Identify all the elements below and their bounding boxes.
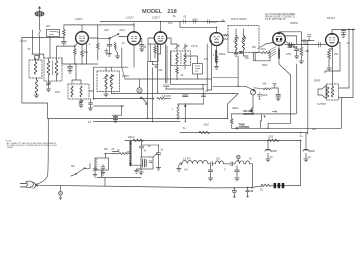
wire bus 99 right already — [122, 67, 125, 79]
svg-text:.1: .1 — [88, 44, 91, 46]
ground C5 — [68, 71, 72, 74]
resistor R15 — [328, 49, 331, 61]
resistor R17 — [268, 137, 279, 142]
chassis ground G1 — [59, 186, 63, 200]
ground C19 — [93, 173, 97, 178]
ballast R23 box — [95, 158, 109, 170]
transformer IF2 box — [171, 51, 191, 66]
wire choke bottom — [131, 165, 141, 169]
ground R15 — [327, 65, 331, 71]
capacitor C27 — [112, 106, 122, 120]
capacitor C36 dark — [240, 52, 243, 54]
ground R5 — [115, 53, 119, 59]
wire grid to tube — [57, 43, 78, 58]
inductor L8 choke — [177, 106, 179, 120]
svg-text:2ND DET: 2ND DET — [288, 47, 298, 49]
capacitor C34 — [149, 161, 152, 163]
svg-text:40: 40 — [148, 146, 151, 148]
tube V6 50L6GT — [326, 30, 339, 50]
wire bus to V4 — [180, 22, 217, 28]
ground C7 — [107, 50, 111, 56]
trimmer arrows IF2 — [175, 46, 188, 50]
wire bus 114 — [231, 113, 295, 115]
wire bottom bus right — [271, 185, 301, 187]
node S1 — [109, 38, 111, 40]
terminal ring chain left — [180, 163, 182, 165]
svg-text:.05: .05 — [143, 47, 147, 49]
resistor R21 — [133, 139, 143, 141]
ground C16 — [235, 175, 239, 181]
resistor R16 — [199, 131, 210, 133]
svg-text:.01: .01 — [205, 91, 209, 93]
wire mid main bus — [111, 93, 238, 95]
ground R14 — [299, 58, 303, 64]
svg-text:.005: .005 — [305, 51, 310, 53]
wire volume line — [213, 85, 246, 87]
svg-text:30: 30 — [117, 150, 120, 152]
wire speaker leads — [333, 48, 354, 98]
transformer L2 wave trap — [29, 58, 42, 78]
ground T2 — [79, 105, 83, 108]
svg-text:1200: 1200 — [268, 137, 274, 139]
resistor R5 diag — [114, 43, 118, 54]
capacitor C30 bus — [208, 20, 210, 23]
potentiometer VOL — [250, 90, 255, 108]
vertical long x296 — [296, 64, 298, 114]
svg-text:10: 10 — [122, 43, 125, 45]
capacitor C15 — [208, 166, 213, 175]
wire V1 plate — [87, 38, 98, 64]
svg-text:VOLUME: VOLUME — [243, 111, 253, 113]
switch S2 vol — [246, 84, 281, 101]
wire IF1 top bus — [94, 66, 128, 68]
svg-text:20MF: 20MF — [271, 151, 277, 153]
wire top bus main — [101, 21, 225, 23]
svg-text:.0001: .0001 — [192, 20, 198, 22]
vertical left long — [93, 67, 95, 99]
capacitor C9 — [140, 45, 145, 50]
svg-text:6.3: 6.3 — [88, 122, 92, 124]
padder C8 — [105, 49, 109, 56]
line-cord box B1 — [47, 30, 60, 37]
wire V6 cath — [329, 49, 332, 65]
plug P3 — [21, 181, 38, 188]
wire AC line — [36, 185, 263, 188]
resistor R20 — [119, 153, 131, 155]
wire cord — [36, 119, 49, 185]
svg-text:AVC: AVC — [168, 22, 173, 25]
node R7 — [176, 78, 178, 80]
vertical 211 — [211, 40, 213, 90]
node R22 — [153, 98, 155, 100]
svg-text:2MEG: 2MEG — [219, 54, 226, 56]
tube V2 12SA7 converter — [128, 23, 141, 50]
wire det — [244, 52, 271, 61]
ground C20 — [101, 171, 105, 176]
vertical 170.5 — [170, 51, 172, 84]
hatch marks V5 — [269, 47, 277, 58]
transformer L1 antenna coil — [44, 58, 62, 81]
ground C13 — [295, 53, 299, 59]
svg-text:12SA7: 12SA7 — [126, 16, 134, 20]
capacitor C21 — [139, 141, 143, 158]
wire long 121 — [94, 121, 180, 123]
svg-text:455KC: 455KC — [122, 76, 129, 78]
wire V3 plate — [167, 38, 171, 44]
transformer IF3 box — [228, 26, 259, 53]
node blob — [184, 105, 186, 107]
svg-text:218: 218 — [167, 9, 176, 15]
tube V5 12SQ7GT — [273, 32, 302, 49]
wire cath bus — [62, 58, 98, 64]
wire grid line V5-V6 — [285, 44, 326, 46]
switch S1 — [109, 33, 127, 38]
wire 211 bottom — [207, 89, 211, 91]
oscillator coil T2 — [68, 84, 89, 99]
svg-text:470K: 470K — [286, 54, 292, 56]
wire grid bus V5 — [213, 77, 238, 79]
tube V3 12SK7 IF — [154, 22, 166, 48]
vertical long x308 — [307, 40, 309, 134]
wire V5 plate — [285, 42, 288, 44]
wire diag mid — [228, 94, 239, 119]
capacitor C19 — [93, 167, 97, 173]
capacitor C29 bus — [194, 20, 196, 23]
wire common 177 — [97, 170, 141, 186]
switch S5 wafer — [140, 97, 147, 105]
node 238 — [237, 86, 239, 88]
vertical 238 — [237, 56, 239, 86]
wire V2 plate right — [141, 38, 142, 44]
wire grid line V2 — [98, 37, 109, 39]
wire tone loop — [232, 98, 342, 129]
resistor R14 — [300, 47, 303, 58]
wire V3 grid — [148, 38, 154, 44]
wire V3 misc — [158, 44, 161, 94]
assorted tiny labels — [46, 16, 304, 152]
coil L5 hatched — [216, 50, 218, 62]
coil L4 dark — [215, 51, 217, 63]
svg-text:TO B- WITH SET IN: TO B- WITH SET IN — [265, 19, 286, 21]
capacitor C11 — [257, 93, 261, 99]
ground box A — [134, 169, 141, 173]
svg-text:L: L — [172, 109, 174, 111]
svg-text:B+: B+ — [173, 16, 177, 18]
speaker SP1 — [318, 84, 339, 100]
wire long 133 — [180, 132, 308, 134]
wire V5 grid — [258, 43, 273, 49]
capacitor C17 — [265, 141, 277, 156]
svg-text:ANT: ANT — [46, 25, 51, 28]
vertical right bus1 — [348, 30, 350, 89]
capacitor C1 — [27, 30, 44, 60]
resistor R10 det — [261, 52, 270, 54]
svg-text:FIELD: FIELD — [128, 137, 135, 139]
node grid V1 — [74, 45, 76, 47]
scattered tiny labels — [20, 21, 350, 160]
svg-text:33: 33 — [260, 190, 263, 192]
vertical right bus2 — [352, 30, 354, 98]
resistor R7 — [176, 68, 179, 80]
box diode filter — [193, 64, 203, 75]
wire chain right — [252, 164, 254, 188]
capacitor C31 — [319, 42, 321, 47]
wire top bus left — [64, 24, 134, 26]
resistor R11 — [251, 108, 253, 114]
trimmer C6 — [79, 99, 83, 105]
ground L3 — [34, 95, 38, 98]
svg-text:2.2: 2.2 — [57, 32, 61, 34]
node ballast top — [105, 153, 107, 155]
resistor R3 cathode — [81, 48, 89, 64]
switch S4 power — [71, 166, 85, 174]
svg-text:SPKR: SPKR — [314, 81, 321, 83]
svg-text:2ND IF TRANS: 2ND IF TRANS — [231, 18, 247, 21]
transformer IF1 box — [97, 71, 120, 92]
svg-text:.0002: .0002 — [203, 125, 209, 127]
svg-text:OUTPUT: OUTPUT — [317, 104, 327, 106]
wire IF3 leads — [236, 29, 244, 56]
wire AVC left vertical — [22, 37, 48, 118]
svg-text:SW: SW — [104, 149, 109, 151]
capacitor C22 — [156, 145, 160, 168]
svg-text:1ST IF: 1ST IF — [191, 46, 198, 48]
svg-text:1: 1 — [213, 55, 215, 57]
resistor R22 — [157, 97, 171, 99]
svg-text:150: 150 — [334, 54, 339, 56]
svg-text:35Z5GT: 35Z5GT — [290, 23, 299, 25]
capacitor C12 — [290, 42, 292, 47]
resistor R8 — [215, 56, 218, 64]
pilot lamp P2 — [237, 155, 241, 161]
svg-text:30: 30 — [161, 150, 164, 152]
trimmer C2 — [47, 81, 51, 87]
wire box2 leads — [185, 56, 203, 89]
node C11 — [259, 98, 260, 99]
wire box lead — [49, 37, 51, 59]
ground C18 — [304, 156, 308, 162]
capacitor C14 — [341, 31, 345, 35]
capacitor C32 — [183, 95, 189, 97]
coil L3 — [35, 78, 37, 95]
svg-text:2A3: 2A3 — [312, 128, 317, 131]
svg-text:20: 20 — [270, 157, 273, 159]
svg-text:C: C — [224, 170, 226, 172]
svg-text:.05: .05 — [183, 17, 187, 19]
wire switch leads — [71, 164, 90, 177]
svg-text:OHMS: OHMS — [7, 147, 14, 149]
capacitor C33 — [112, 152, 119, 154]
svg-text:3.5 470: 3.5 470 — [183, 159, 191, 161]
resistor R2 AVC — [74, 46, 77, 64]
wire seg 104 — [178, 103, 204, 105]
wire ballast top — [105, 154, 112, 158]
svg-text:.05: .05 — [27, 49, 31, 51]
capacitor C13 — [294, 47, 299, 53]
ground chain — [177, 169, 181, 172]
wire grid horizontal — [22, 36, 64, 38]
svg-text:LOOP: LOOP — [20, 41, 27, 43]
box R6 screen — [148, 44, 158, 62]
svg-text:.0001: .0001 — [119, 30, 125, 32]
svg-text:250: 250 — [252, 47, 257, 49]
wire osc leads — [72, 64, 94, 91]
resistor R12 vertical — [231, 114, 233, 128]
svg-text:1MEG: 1MEG — [232, 108, 239, 110]
ground IF1 — [104, 94, 108, 97]
svg-text:150: 150 — [167, 96, 172, 98]
vertical 207 — [206, 44, 208, 90]
ground box B — [139, 169, 143, 175]
svg-text:30: 30 — [308, 157, 311, 159]
ground L1 — [46, 87, 50, 92]
svg-text:A B: A B — [184, 169, 188, 172]
svg-text:CONTROL: CONTROL — [239, 127, 251, 129]
resistor R13 dark bar — [278, 49, 280, 58]
wire bus 89 — [166, 88, 204, 90]
resistor chain R18 ballast divider — [182, 159, 253, 172]
capacitor C24 line bypass — [232, 187, 236, 198]
tube V1 12SK7 RF — [76, 25, 89, 48]
wire V5 down — [279, 58, 291, 75]
svg-text:.002: .002 — [158, 70, 163, 72]
svg-text:50L6GT: 50L6GT — [327, 18, 336, 20]
wire IF2 leads — [171, 44, 185, 69]
title MODEL 218 — [142, 9, 177, 15]
capacitor C7 — [107, 39, 112, 51]
labels mid right — [286, 51, 310, 56]
svg-text:OSC: OSC — [104, 30, 109, 32]
svg-text:250: 250 — [245, 58, 250, 60]
vertical bus mid1 — [147, 62, 149, 119]
svg-text:PAD: PAD — [55, 91, 60, 94]
capacitor C25 line bypass — [246, 187, 254, 198]
wire chain left — [178, 165, 180, 169]
wire choke top — [130, 141, 132, 145]
wire long 118 — [48, 118, 228, 120]
ground C22 — [156, 168, 160, 171]
capacitor C16 — [235, 166, 240, 175]
svg-text:SW: SW — [71, 166, 76, 168]
wire mid second — [94, 105, 124, 107]
inductor L7 field coil — [130, 142, 132, 166]
ground C15 — [208, 175, 212, 181]
ground arrow A — [264, 116, 266, 119]
ground C17 — [266, 156, 270, 162]
capacitor C10 — [163, 85, 169, 89]
capacitor C35 — [303, 40, 306, 41]
switch S3 tone — [236, 128, 238, 130]
resistor R19 — [260, 184, 271, 191]
svg-text:.05: .05 — [250, 191, 254, 193]
wire V6 loop — [325, 43, 340, 74]
ground C26 — [88, 108, 92, 111]
wire bus 84 — [171, 83, 208, 85]
svg-text:.05: .05 — [180, 75, 184, 77]
ground box — [153, 65, 159, 68]
svg-text:IN OHMS UNLESS OTHERWISE SPECI: IN OHMS UNLESS OTHERWISE SPECIFIED K=100… — [7, 145, 58, 147]
svg-text:12SK7: 12SK7 — [152, 16, 160, 20]
wire box top link — [142, 145, 159, 157]
capacitor C20 — [101, 165, 105, 171]
wire left mid — [94, 98, 154, 100]
svg-text:40: 40 — [144, 151, 147, 153]
tube V4 12SQ7 — [210, 27, 223, 50]
pilot lamp P1 — [137, 79, 142, 94]
svg-text:99: 99 — [249, 159, 252, 161]
wire V3 cath verticals — [161, 44, 168, 83]
wire V4 plate — [223, 34, 229, 39]
svg-text:.0001: .0001 — [260, 49, 266, 51]
ground IF3 — [234, 52, 238, 56]
capacitor C18 — [303, 133, 315, 156]
svg-text:500K: 500K — [262, 65, 268, 67]
ground V4 — [214, 64, 218, 70]
node grid junction — [32, 37, 34, 39]
rectifier box B2 — [141, 157, 153, 169]
diode load R9 — [254, 52, 271, 61]
svg-text:30MF: 30MF — [309, 151, 315, 153]
wire long 140 — [125, 140, 301, 142]
ground C14 — [341, 35, 345, 38]
note text — [6, 141, 58, 150]
capacitor C5 — [68, 64, 73, 71]
wire V2 cathode — [133, 50, 135, 67]
wire antenna lead — [39, 16, 40, 58]
vertical det down — [201, 88, 205, 104]
svg-text:B+: B+ — [300, 136, 304, 138]
wire V6 top cap — [332, 30, 355, 31]
vertical x121.8 — [121, 48, 123, 67]
wire bus 79 — [125, 78, 212, 80]
capacitor C4a — [62, 37, 67, 46]
wire box leads — [152, 62, 154, 65]
wire IF1 leads — [106, 67, 111, 94]
capacitor C26 — [88, 99, 92, 108]
svg-text:.05: .05 — [111, 149, 115, 151]
resistor R4 plate — [97, 25, 100, 60]
svg-text:500K: 500K — [262, 95, 268, 97]
svg-text:150: 150 — [216, 159, 221, 161]
svg-text:MODEL: MODEL — [142, 9, 163, 15]
capacitor C28 bus — [184, 20, 186, 23]
electrolytic bank CE1 — [274, 183, 285, 188]
vertical bus mid2 — [152, 68, 154, 122]
ground C27 — [113, 120, 117, 123]
svg-text:12SQ7: 12SQ7 — [209, 20, 218, 24]
ground C9 — [140, 49, 144, 52]
svg-text:B+: B+ — [183, 128, 187, 130]
resistor R1 screen — [57, 25, 65, 38]
svg-text:12SK7: 12SK7 — [75, 17, 83, 21]
antenna A1 — [35, 7, 44, 17]
svg-text:.006: .006 — [262, 84, 267, 86]
svg-text:47K: 47K — [204, 59, 209, 61]
wire Bplus vertical — [300, 141, 302, 186]
wire V4 cath — [216, 50, 218, 56]
